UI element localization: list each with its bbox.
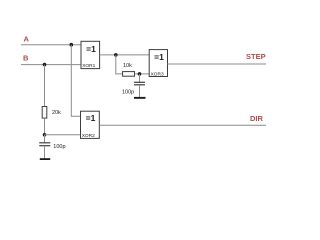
svg-text:A: A (24, 35, 30, 44)
capacitor C2 plates (39, 142, 50, 144)
resistor R2 20k (42, 107, 47, 119)
svg-text:100p: 100p (122, 90, 134, 96)
wire resistor to node (44, 118, 46, 135)
svg-text:=1: =1 (86, 44, 96, 54)
op XOR2 gate box (81, 111, 100, 138)
junction node RC2 (43, 133, 47, 137)
svg-text:=1: =1 (154, 52, 164, 62)
wire B branch vertical down to resistor (44, 65, 46, 107)
wire node to capacitor C1 (139, 74, 141, 82)
ground (left) (40, 158, 50, 160)
resistor R1 10k (123, 72, 135, 77)
wire resistor to XOR3 input (135, 73, 150, 75)
junction on A wire (70, 43, 74, 47)
ground (right) (134, 97, 146, 99)
svg-text:STEP: STEP (246, 52, 266, 61)
op XOR1 gate box (81, 41, 100, 68)
wire node to capacitor (44, 135, 46, 143)
svg-text:B: B (23, 54, 29, 63)
svg-text:=1: =1 (86, 113, 96, 123)
svg-text:100p: 100p (53, 144, 65, 150)
wire A horizontal (21, 44, 81, 46)
wire down to resistor R1 (116, 55, 123, 74)
junction on B wire (43, 63, 47, 67)
junction on XOR1 output (114, 53, 118, 57)
junction node RC1 (138, 72, 142, 76)
svg-text:XOR3: XOR3 (151, 72, 164, 78)
wire STEP output (168, 63, 267, 65)
op XOR3 gate box (149, 50, 167, 77)
wire node to XOR2 input (45, 134, 81, 136)
capacitor C1 plates (134, 81, 145, 83)
wire B horizontal (21, 64, 81, 66)
wire XOR1 output (100, 54, 150, 56)
wire capacitor to ground (139, 85, 141, 97)
svg-text:XOR2: XOR2 (82, 133, 95, 139)
wire capacitor to ground (44, 146, 46, 159)
svg-text:10k: 10k (123, 63, 132, 69)
svg-text:20k: 20k (52, 110, 61, 116)
wire DIR output (99, 124, 266, 126)
wire A branch vertical down to XOR2 (71, 45, 80, 117)
svg-text:XOR1: XOR1 (82, 63, 95, 69)
svg-text:DIR: DIR (250, 114, 264, 123)
